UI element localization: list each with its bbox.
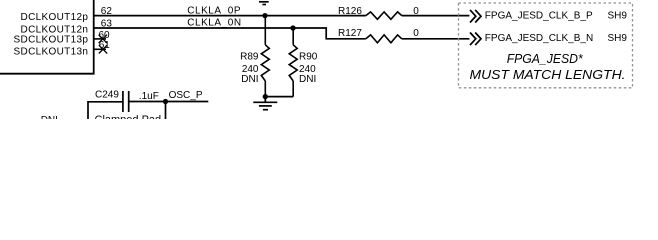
- node junction wire1/R89: [262, 13, 267, 18]
- svg-text:Clamped Pad: Clamped Pad: [95, 114, 162, 119]
- svg-text:DCLKOUT12p: DCLKOUT12p: [21, 12, 89, 23]
- svg-text:DNI: DNI: [41, 115, 58, 119]
- svg-text:0: 0: [413, 28, 419, 39]
- svg-text:CLKLA_0P: CLKLA_0P: [187, 5, 241, 16]
- resistor R127: [366, 35, 402, 43]
- no-connect stub pin 61: [94, 45, 108, 53]
- svg-text:R90: R90: [299, 51, 318, 62]
- svg-text:MUST MATCH LENGTH.: MUST MATCH LENGTH.: [470, 67, 626, 82]
- wire OSC_P: [129, 101, 208, 103]
- svg-text:240: 240: [299, 64, 316, 75]
- IC U1 body edge (clock generator, clipped): [0, 0, 94, 74]
- svg-text:SH9: SH9: [608, 10, 628, 21]
- svg-text:DNI: DNI: [299, 74, 316, 85]
- off-page connector FPGA_JESD_CLK_B_N: [470, 33, 481, 46]
- svg-text:C249: C249: [95, 89, 119, 100]
- svg-text:.1uF: .1uF: [139, 91, 159, 102]
- no-connect stub pin 60: [94, 35, 107, 43]
- svg-text:FPGA_JESD_CLK_B_N: FPGA_JESD_CLK_B_N: [485, 33, 593, 44]
- wire CLKLA_0P: [94, 15, 470, 17]
- off-page connector FPGA_JESD_CLK_B_P: [470, 10, 481, 23]
- svg-text:SDCLKOUT13n: SDCLKOUT13n: [14, 47, 89, 58]
- svg-text:R127: R127: [338, 28, 362, 39]
- svg-text:FPGA_JESD_CLK_B_P: FPGA_JESD_CLK_B_P: [485, 10, 593, 21]
- resistor R126: [366, 12, 402, 19]
- node junction OSC_P: [163, 99, 168, 104]
- dashed group box FPGA_JESD: [459, 3, 633, 88]
- svg-text:0: 0: [413, 6, 419, 17]
- svg-text:OSC_P: OSC_P: [169, 90, 203, 101]
- ground: [253, 97, 277, 110]
- resistor R89: [261, 16, 269, 97]
- svg-text:R89: R89: [240, 51, 259, 62]
- svg-text:240: 240: [242, 64, 259, 75]
- svg-text:SDCLKOUT13p: SDCLKOUT13p: [14, 35, 89, 46]
- svg-text:R126: R126: [338, 6, 362, 17]
- svg-text:CLKLA_0N: CLKLA_0N: [187, 17, 241, 28]
- wire CLKLA_0N: [94, 28, 470, 39]
- wire into oscillator box: [165, 102, 167, 120]
- svg-text:SH9: SH9: [608, 33, 628, 44]
- ground (partial, top): [259, 2, 269, 5]
- svg-text:DNI: DNI: [241, 74, 258, 85]
- oscillator box: [88, 102, 122, 119]
- wire resistor bottoms: [265, 96, 293, 98]
- resistor R90: [289, 28, 297, 97]
- svg-text:FPGA_JESD*: FPGA_JESD*: [507, 51, 584, 66]
- capacitor C249: [123, 91, 129, 112]
- node junction wire2/R90: [290, 25, 295, 30]
- node junction ground: [263, 94, 268, 99]
